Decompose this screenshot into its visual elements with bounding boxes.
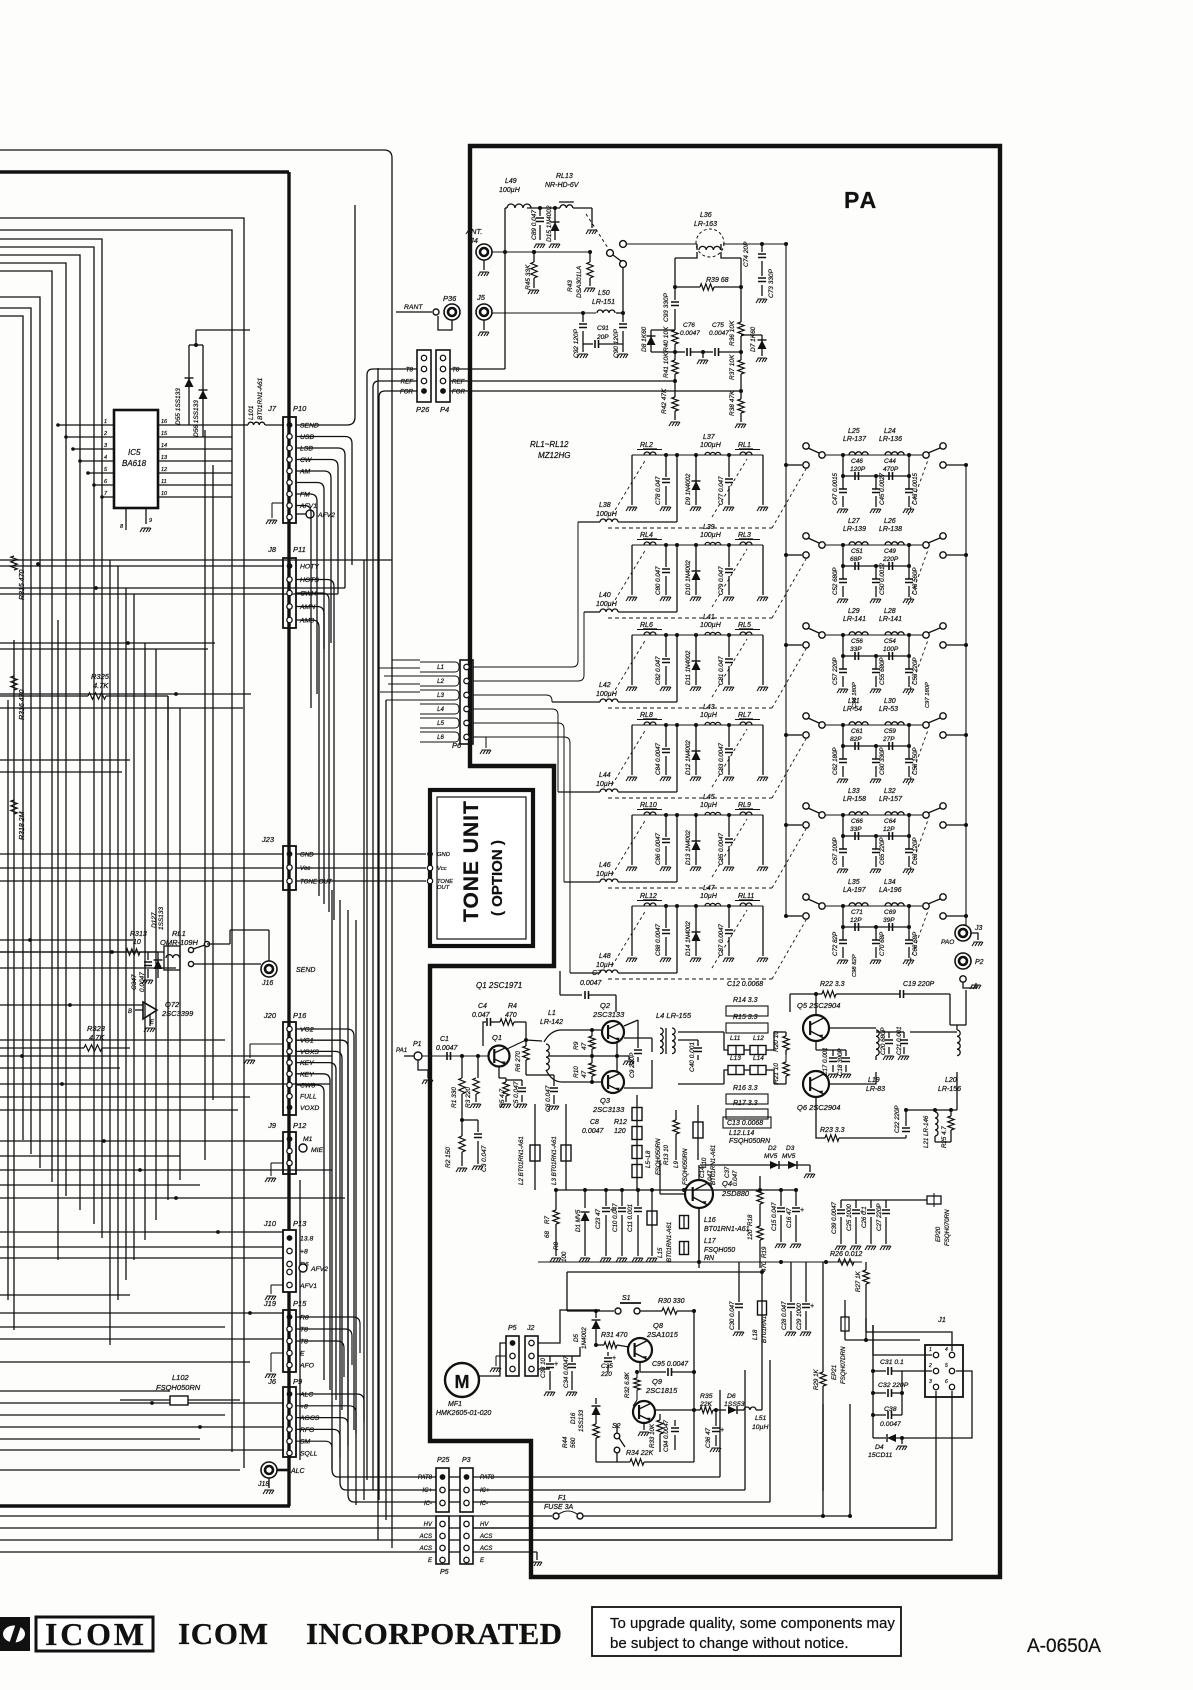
filter row 6 right input switch <box>784 914 788 918</box>
svg-text:FSQH050RN: FSQH050RN <box>682 1148 689 1185</box>
dashed select output row6 <box>908 911 928 966</box>
filter row 4 right input switch <box>784 733 788 737</box>
svg-text:RL1: RL1 <box>738 442 751 449</box>
svg-text:IC5: IC5 <box>128 448 141 457</box>
svg-text:P3: P3 <box>462 1457 471 1464</box>
svg-text:RL8: RL8 <box>640 712 653 719</box>
svg-text:C75: C75 <box>712 322 724 329</box>
svg-text:C28 0.047: C28 0.047 <box>781 1301 788 1330</box>
svg-text:0.0047: 0.0047 <box>680 330 700 337</box>
svg-text:13.8: 13.8 <box>300 1236 313 1243</box>
svg-text:C23 47: C23 47 <box>595 1208 602 1229</box>
svg-text:10µH: 10µH <box>700 802 718 809</box>
IC5 pin 13 <box>158 460 232 462</box>
svg-text:12P: 12P <box>850 917 862 924</box>
svg-text:C52 680P: C52 680P <box>832 567 839 595</box>
svg-text:10µH: 10µH <box>596 871 614 878</box>
wire row4 right vert <box>762 725 764 775</box>
svg-text:L40: L40 <box>599 592 611 599</box>
svg-text:C57 220P: C57 220P <box>832 657 839 685</box>
pin P10.AM <box>287 468 292 473</box>
pin P3L.E <box>464 1557 469 1562</box>
svg-text:R45 33K: R45 33K <box>525 264 532 290</box>
svg-text:CW: CW <box>300 457 312 464</box>
svg-text:C55 680P: C55 680P <box>879 657 886 685</box>
main unit bold border bottom <box>0 1504 290 1507</box>
J8 fan wires <box>296 580 334 921</box>
wire row4 top <box>632 724 763 726</box>
svg-text:560: 560 <box>570 1437 577 1448</box>
svg-text:LR-141: LR-141 <box>879 616 902 623</box>
svg-text:470: 470 <box>505 1012 517 1019</box>
wire RF line to L36 <box>626 243 697 245</box>
svg-text:0.0047: 0.0047 <box>580 980 603 987</box>
svg-text:J18: J18 <box>257 1481 269 1488</box>
svg-text:L10: L10 <box>701 1157 708 1168</box>
wire filter output bus <box>965 465 967 925</box>
pin P12.3 <box>287 1160 292 1165</box>
svg-text:C89 0.047: C89 0.047 <box>531 210 538 240</box>
wire row6 right vert <box>762 906 764 956</box>
wire motor to P5 <box>479 1343 506 1376</box>
wire row5 top <box>632 814 763 816</box>
svg-text:LA-196: LA-196 <box>879 887 902 894</box>
svg-text:C33 10: C33 10 <box>540 1357 547 1378</box>
pin P3L.ACS <box>464 1533 469 1538</box>
jack P2 <box>955 953 971 969</box>
pin P13.+8 <box>287 1248 292 1253</box>
diode D9 1N4002 <box>694 453 698 457</box>
pin J23.TONE OUT <box>287 878 292 883</box>
wire row2 right mid <box>843 565 909 567</box>
pin P15.AFO <box>287 1362 292 1367</box>
svg-text:RL7: RL7 <box>738 712 752 719</box>
svg-text:C87 0.0047: C87 0.0047 <box>718 923 725 956</box>
svg-text:C60 330P: C60 330P <box>879 747 886 775</box>
main unit bold border top <box>0 170 289 173</box>
diode D11 1N4002 <box>694 633 698 637</box>
pin J23.Vcc <box>287 865 292 870</box>
pin P6.L1 <box>464 664 469 669</box>
svg-text:AFV1: AFV1 <box>299 1283 317 1290</box>
svg-text:FUSE 3A: FUSE 3A <box>544 1504 574 1511</box>
svg-text:LR-139: LR-139 <box>843 526 866 533</box>
svg-text:C71: C71 <box>851 909 863 916</box>
pin P10.6 <box>287 480 292 485</box>
svg-text:ACS: ACS <box>479 1534 492 1540</box>
svg-text:R38 47K: R38 47K <box>729 390 736 416</box>
svg-text:47: 47 <box>581 1042 588 1050</box>
svg-text:ACS: ACS <box>479 1546 492 1552</box>
pin P5L.E <box>440 1557 445 1562</box>
svg-text:FOR: FOR <box>452 389 466 396</box>
svg-text:R18: R18 <box>747 1214 754 1226</box>
wire row4 left vert <box>631 725 633 775</box>
svg-text:2SC3399: 2SC3399 <box>161 1009 194 1018</box>
jack J5 <box>476 304 492 320</box>
svg-text:C13 0.0068: C13 0.0068 <box>727 1120 763 1127</box>
svg-text:C15 0.047: C15 0.047 <box>771 1202 778 1231</box>
svg-text:P4: P4 <box>440 405 449 414</box>
svg-text:Q1: Q1 <box>492 1033 502 1042</box>
svg-text:1SS133: 1SS133 <box>578 1409 585 1432</box>
svg-text:+: + <box>800 1207 804 1214</box>
svg-text:D9 1N4002: D9 1N4002 <box>685 473 692 505</box>
IC U IC5 BA618 <box>114 410 158 508</box>
connector P36 <box>396 311 432 313</box>
svg-text:0.0047: 0.0047 <box>139 972 146 992</box>
svg-text:IC-: IC- <box>424 1501 432 1507</box>
capacitor C57 220P <box>841 633 845 637</box>
svg-text:Q4: Q4 <box>722 1179 732 1188</box>
wire loop L8 <box>0 297 40 1168</box>
pin P11.AM8 <box>287 617 292 622</box>
pin P5L.HV <box>440 1521 445 1526</box>
svg-text:ICOM: ICOM <box>45 1616 144 1652</box>
svg-text:L26: L26 <box>884 518 896 525</box>
pin P10.FM <box>287 491 292 496</box>
wire row5 right vert <box>762 815 764 865</box>
svg-text:R19: R19 <box>761 1246 768 1258</box>
pin P15.T8 <box>287 1338 292 1343</box>
pin P11.CWH <box>287 590 292 595</box>
svg-text:100µH: 100µH <box>700 532 722 539</box>
svg-text:C22 220P: C22 220P <box>894 1105 901 1133</box>
svg-text:RL1: RL1 <box>172 929 186 938</box>
svg-text:C95 0.0047: C95 0.0047 <box>652 1361 689 1368</box>
svg-text:C16 47: C16 47 <box>786 1207 793 1228</box>
svg-text:C69: C69 <box>884 909 896 916</box>
svg-text:HOTS: HOTS <box>300 577 319 584</box>
wire bead row top <box>724 1032 774 1050</box>
svg-text:R10: R10 <box>573 1066 580 1078</box>
wire driver mid rail <box>829 1028 876 1084</box>
svg-text:HOTY: HOTY <box>300 564 319 571</box>
svg-text:0.047: 0.047 <box>472 1012 491 1019</box>
pin P16.VOXD <box>287 1105 293 1111</box>
wire row6 input riser <box>675 904 679 908</box>
wire row2 input riser <box>675 543 679 547</box>
pin P9.AGCS <box>287 1415 292 1420</box>
wire RL1 to J16 <box>230 929 269 931</box>
svg-text:20P: 20P <box>596 334 609 341</box>
wires P6 to rows <box>473 522 578 667</box>
wire outer rounded feed line <box>0 150 392 1548</box>
svg-text:6: 6 <box>945 1379 948 1385</box>
pin P10.SEND <box>287 422 293 428</box>
svg-text:C59: C59 <box>884 728 896 735</box>
svg-text:PA: PA <box>844 187 878 213</box>
pin P25.PAT8 <box>440 1474 446 1480</box>
svg-text:R37 10K: R37 10K <box>729 354 736 380</box>
svg-text:AFV2: AFV2 <box>310 1266 328 1273</box>
svg-text:100µH: 100µH <box>596 691 618 698</box>
svg-text:L27: L27 <box>848 518 861 525</box>
svg-text:10µH: 10µH <box>700 893 718 900</box>
switch S ant common <box>607 250 614 257</box>
svg-text:R36 10K: R36 10K <box>729 320 736 346</box>
svg-text:J9: J9 <box>267 1121 277 1130</box>
capacitor C60 330P <box>875 746 877 759</box>
svg-text:L13: L13 <box>730 1055 741 1062</box>
svg-text:D2: D2 <box>768 1145 777 1152</box>
svg-text:C8: C8 <box>590 1119 599 1126</box>
svg-text:RL11: RL11 <box>738 893 754 900</box>
diode D14 1N4002 <box>694 904 698 908</box>
svg-text:Q2: Q2 <box>600 1001 611 1010</box>
svg-text:C49: C49 <box>884 548 896 555</box>
svg-text:SEND: SEND <box>300 423 319 430</box>
pin P4.T8 <box>440 366 445 371</box>
svg-text:470P: 470P <box>883 466 899 473</box>
svg-text:M: M <box>455 1372 470 1392</box>
svg-text:HV: HV <box>480 1522 489 1528</box>
capacitor C67 100P <box>841 813 845 817</box>
svg-text:L25: L25 <box>848 428 860 435</box>
wire J1 pin4 top <box>866 1332 952 1351</box>
svg-text:ALC: ALC <box>299 1392 313 1399</box>
svg-text:R26 0.012: R26 0.012 <box>830 1251 862 1258</box>
svg-text:L29: L29 <box>848 608 860 615</box>
pin P6.L5 <box>464 720 469 725</box>
pin P5.1 <box>510 1340 516 1346</box>
svg-text:C35: C35 <box>601 1363 613 1370</box>
svg-text:AMN: AMN <box>299 604 315 611</box>
svg-text:R316 470: R316 470 <box>19 690 26 720</box>
wire driver mid tap <box>549 1055 624 1057</box>
svg-text:R25 4.7: R25 4.7 <box>941 1126 948 1148</box>
wire row4 input riser <box>675 723 679 727</box>
pin P5L.ACS <box>440 1545 445 1550</box>
filter row 2 right input switch <box>784 553 788 557</box>
notice box <box>592 1607 901 1656</box>
diode D12 1N4002 <box>694 723 698 727</box>
svg-text:D14 1N4002: D14 1N4002 <box>685 921 692 956</box>
svg-text:L39: L39 <box>703 524 715 531</box>
svg-text:0.0047: 0.0047 <box>582 1128 605 1135</box>
capacitor C80 0.047 <box>664 543 668 547</box>
svg-text:To upgrade quality, some compo: To upgrade quality, some components may <box>610 1615 895 1632</box>
junction dots <box>36 562 40 566</box>
capacitor C85 0.0047 <box>727 813 731 817</box>
svg-text:L11: L11 <box>730 1035 741 1042</box>
wire row6 left vert <box>631 906 633 956</box>
svg-text:12P: 12P <box>883 826 895 833</box>
capacitor C55 680P <box>875 656 877 669</box>
svg-text:L16: L16 <box>704 1217 716 1224</box>
pin P9.RFG <box>287 1427 292 1432</box>
svg-text:C93 330P: C93 330P <box>663 292 670 322</box>
svg-text:C74 20P: C74 20P <box>743 241 750 267</box>
svg-text:BT01RN1-A61: BT01RN1-A61 <box>257 377 264 420</box>
junction dots input <box>460 1054 464 1058</box>
svg-text:10: 10 <box>133 939 141 946</box>
pin J2.2 <box>529 1353 534 1358</box>
svg-text:Q5 2SC2904: Q5 2SC2904 <box>797 1001 840 1010</box>
svg-text:L28: L28 <box>884 608 896 615</box>
capacitor C50 0.0012 <box>875 566 877 579</box>
capacitor C86 0.0047 <box>664 813 668 817</box>
pin J2.1 <box>529 1340 534 1345</box>
wire mid verticals <box>331 890 333 1469</box>
svg-text:J19: J19 <box>263 1299 277 1308</box>
svg-text:P5: P5 <box>440 1569 449 1576</box>
filter row 2 output switch <box>923 542 929 548</box>
svg-text:C48 560P: C48 560P <box>912 567 919 595</box>
wire row3 right vert <box>762 635 764 685</box>
svg-text:L32: L32 <box>884 788 896 795</box>
pin P15.R8 <box>287 1314 293 1320</box>
svg-text:C97 180P: C97 180P <box>925 682 931 708</box>
wire row3 top <box>632 634 763 636</box>
jack J16 SEND <box>261 961 277 977</box>
pin P5L.ACS <box>440 1533 445 1538</box>
dashed select output row3 <box>908 640 928 695</box>
wire row6 right top <box>825 905 923 907</box>
svg-text:E: E <box>300 1351 305 1358</box>
svg-text:3: 3 <box>929 1379 932 1385</box>
svg-text:F1: F1 <box>558 1495 566 1502</box>
svg-text:L30: L30 <box>884 698 896 705</box>
svg-text:LR-138: LR-138 <box>879 526 902 533</box>
svg-text:4: 4 <box>104 455 107 461</box>
jack J4 ANT <box>476 244 492 260</box>
svg-text:REF: REF <box>452 379 466 386</box>
svg-text:L3: L3 <box>437 692 444 699</box>
svg-text:L41: L41 <box>703 614 715 621</box>
svg-text:MV5: MV5 <box>782 1153 796 1160</box>
pin P16.KEY <box>287 1060 292 1065</box>
svg-text:D8 1K60: D8 1K60 <box>641 326 648 352</box>
svg-text:39P: 39P <box>883 917 895 924</box>
wires between P25 and P3 <box>449 1476 460 1478</box>
svg-text:D11 1N4002: D11 1N4002 <box>685 650 692 685</box>
svg-text:L1: L1 <box>548 1010 556 1017</box>
pin P6.L4 <box>464 706 469 711</box>
svg-text:R30 330: R30 330 <box>658 1298 685 1305</box>
wire amp input <box>422 1055 489 1057</box>
wire row1 input riser <box>675 453 679 457</box>
svg-text:P25: P25 <box>437 1457 450 1464</box>
wire second rail <box>567 1271 762 1273</box>
svg-text:D3: D3 <box>786 1145 795 1152</box>
svg-text:C54: C54 <box>884 638 896 645</box>
svg-text:R31 470: R31 470 <box>601 1332 628 1339</box>
svg-text:MIE: MIE <box>311 1147 324 1154</box>
wire row3 right mid <box>843 655 909 657</box>
svg-text:KEY: KEY <box>300 1071 314 1078</box>
wire row3 right top <box>825 634 923 636</box>
svg-text:L14: L14 <box>753 1055 764 1062</box>
diode D10 1N4002 <box>694 543 698 547</box>
svg-text:L9: L9 <box>673 1161 680 1168</box>
svg-text:C85 0.0047: C85 0.0047 <box>718 832 725 865</box>
svg-text:RL5: RL5 <box>738 622 751 629</box>
wire emitter rail <box>556 1189 796 1191</box>
capacitor C47 0.0015 <box>841 453 845 457</box>
wire bottom rail <box>538 1261 862 1263</box>
svg-text:L12: L12 <box>753 1035 764 1042</box>
svg-text:R6 270: R6 270 <box>515 1051 522 1072</box>
svg-text:C4: C4 <box>478 1003 487 1010</box>
svg-text:FSQH070RN: FSQH070RN <box>944 1209 951 1246</box>
svg-text:L4: L4 <box>437 706 444 713</box>
svg-text:L18: L18 <box>752 1329 759 1340</box>
svg-text:L102: L102 <box>172 1373 190 1382</box>
svg-text:D12 1N4002: D12 1N4002 <box>685 740 692 775</box>
svg-text:L46: L46 <box>599 862 611 869</box>
svg-text:L12.L14: L12.L14 <box>729 1130 754 1137</box>
ground at J20 <box>250 1043 283 1045</box>
wire row1 left vert <box>631 455 633 505</box>
wire row3 left vert <box>631 635 633 685</box>
pin P13.AFV2 <box>287 1269 292 1274</box>
svg-text:D6: D6 <box>727 1393 736 1400</box>
svg-text:P10: P10 <box>293 404 307 413</box>
filter row 3 right input switch <box>784 643 788 647</box>
svg-text:C80 0.047: C80 0.047 <box>655 566 662 595</box>
svg-text:LSB: LSB <box>300 446 313 453</box>
capacitor C48 560P <box>907 543 911 547</box>
svg-text:D5: D5 <box>573 1334 580 1342</box>
svg-text:C1: C1 <box>440 1036 449 1043</box>
pin P9.ALC <box>287 1391 293 1397</box>
capacitor C81 0.047 <box>727 633 731 637</box>
svg-text:R1 330: R1 330 <box>451 1087 458 1108</box>
pin P9.SM <box>287 1439 292 1444</box>
svg-text:33P: 33P <box>850 646 862 653</box>
svg-text:J23: J23 <box>261 835 275 844</box>
pin P5.2 <box>510 1353 515 1358</box>
svg-text:BT01RN1-A61: BT01RN1-A61 <box>704 1226 750 1233</box>
wire Q9 collector <box>655 1409 694 1411</box>
svg-text:L47: L47 <box>703 885 716 892</box>
svg-text:FSQH050RN: FSQH050RN <box>156 1383 201 1392</box>
svg-text:C25 1000: C25 1000 <box>846 1204 853 1231</box>
wires J1 pins 3 6 down <box>473 1391 936 1528</box>
diode D56 1SS133 <box>202 345 204 437</box>
svg-text:14: 14 <box>161 443 167 449</box>
svg-text:D127: D127 <box>151 912 158 928</box>
capacitor C52 680P <box>841 543 845 547</box>
svg-text:2SC3133: 2SC3133 <box>592 1010 625 1019</box>
capacitor C68 68P <box>907 904 911 908</box>
svg-text:B: B <box>128 1009 132 1015</box>
svg-text:J20: J20 <box>263 1011 277 1020</box>
svg-text:C64: C64 <box>884 818 896 825</box>
pin P10.AFV2 <box>306 510 314 518</box>
IC5 pin 14 <box>158 448 232 450</box>
capacitor C88 0.0047 <box>664 904 668 908</box>
wire J1 pin1 <box>873 1325 932 1355</box>
svg-text:C29 1000: C29 1000 <box>796 1303 803 1330</box>
svg-text:T8: T8 <box>406 367 414 374</box>
svg-text:C94 0.0047: C94 0.0047 <box>663 1419 670 1452</box>
pin P12.MIE <box>287 1148 292 1153</box>
svg-text:1: 1 <box>929 1347 932 1353</box>
diode D13 1N4002 <box>694 813 698 817</box>
J6 fan wires <box>296 1394 364 1422</box>
svg-text:120: 120 <box>614 1128 626 1135</box>
svg-text:C83 0.0047: C83 0.0047 <box>718 742 725 775</box>
svg-text:15: 15 <box>161 431 168 437</box>
svg-text:R41 10K: R41 10K <box>663 352 670 378</box>
svg-text:CWH: CWH <box>300 591 316 598</box>
filter row 1 right input switch <box>784 463 788 467</box>
svg-text:C56: C56 <box>851 638 863 645</box>
svg-text:FSQH050RN: FSQH050RN <box>655 1138 662 1175</box>
svg-text:LR-83: LR-83 <box>866 1086 885 1093</box>
